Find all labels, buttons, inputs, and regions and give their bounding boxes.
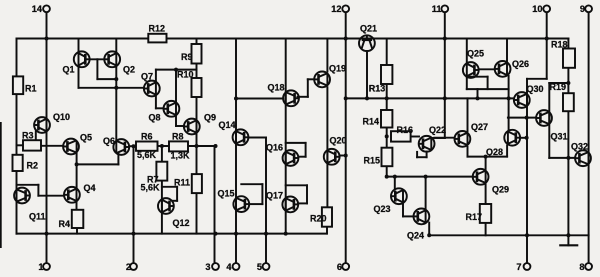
svg-text:R14: R14 [363, 117, 380, 127]
svg-text:Q2: Q2 [123, 65, 135, 75]
svg-text:R2: R2 [27, 161, 39, 171]
svg-text:Q28: Q28 [486, 147, 503, 157]
svg-text:12: 12 [331, 4, 341, 14]
svg-text:Q14: Q14 [219, 120, 236, 130]
svg-text:R1: R1 [25, 84, 37, 94]
svg-text:Q29: Q29 [492, 185, 509, 195]
svg-text:R17: R17 [466, 212, 483, 222]
svg-text:Q6: Q6 [103, 136, 115, 146]
svg-text:R20: R20 [310, 214, 327, 224]
svg-text:4: 4 [226, 262, 232, 272]
svg-text:10: 10 [532, 4, 542, 14]
svg-text:Q31: Q31 [551, 132, 568, 142]
svg-text:Q12: Q12 [173, 218, 190, 228]
svg-text:5: 5 [257, 262, 262, 272]
svg-text:Q26: Q26 [512, 59, 529, 69]
svg-text:R12: R12 [149, 24, 166, 34]
svg-text:3: 3 [205, 262, 210, 272]
svg-text:Q15: Q15 [218, 189, 235, 199]
svg-text:11: 11 [432, 4, 442, 14]
svg-text:Q17: Q17 [266, 191, 283, 201]
svg-text:Q23: Q23 [374, 204, 391, 214]
svg-text:5,6K: 5,6K [141, 183, 161, 193]
svg-text:Q25: Q25 [467, 49, 484, 59]
svg-text:R13: R13 [369, 83, 386, 93]
svg-text:Q10: Q10 [53, 112, 70, 122]
svg-text:R6: R6 [141, 132, 153, 142]
svg-text:Q18: Q18 [268, 83, 285, 93]
svg-text:Q5: Q5 [80, 133, 92, 143]
svg-text:R16: R16 [397, 125, 414, 135]
svg-text:1: 1 [38, 262, 43, 272]
svg-text:Q20: Q20 [330, 136, 347, 146]
svg-text:Q7: Q7 [141, 72, 153, 82]
svg-text:Q32: Q32 [571, 142, 588, 152]
svg-text:R19: R19 [550, 82, 567, 92]
svg-text:14: 14 [32, 4, 43, 14]
svg-text:Q27: Q27 [471, 122, 488, 132]
svg-text:Q22: Q22 [429, 125, 446, 135]
svg-text:Q11: Q11 [29, 212, 46, 222]
svg-text:5,6K: 5,6K [137, 150, 157, 160]
svg-text:Q19: Q19 [329, 64, 346, 74]
svg-text:8: 8 [579, 262, 584, 272]
svg-text:Q4: Q4 [84, 183, 96, 193]
svg-text:Q21: Q21 [360, 24, 377, 34]
svg-text:9: 9 [580, 4, 585, 14]
svg-text:R9: R9 [181, 52, 193, 62]
svg-text:Q30: Q30 [527, 84, 544, 94]
svg-text:1,3K: 1,3K [171, 151, 191, 161]
svg-text:R8: R8 [172, 132, 184, 142]
svg-text:7: 7 [516, 262, 521, 272]
svg-text:R18: R18 [551, 40, 568, 50]
svg-text:R11: R11 [174, 177, 190, 187]
svg-text:6: 6 [337, 262, 342, 272]
svg-text:R10: R10 [177, 70, 194, 80]
svg-text:R3: R3 [22, 131, 34, 141]
svg-text:R15: R15 [364, 156, 381, 166]
svg-text:Q16: Q16 [266, 143, 283, 153]
svg-text:2: 2 [126, 262, 131, 272]
svg-text:Q8: Q8 [149, 113, 161, 123]
svg-text:Q1: Q1 [63, 65, 75, 75]
svg-text:Q9: Q9 [204, 113, 216, 123]
svg-text:R4: R4 [59, 219, 71, 229]
svg-text:Q24: Q24 [407, 231, 424, 241]
